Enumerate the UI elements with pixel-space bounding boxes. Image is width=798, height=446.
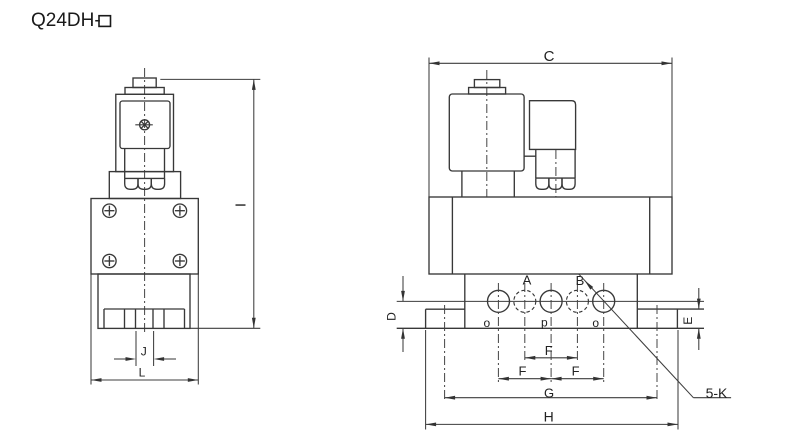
svg-text:F: F — [519, 363, 527, 378]
svg-text:E: E — [681, 317, 695, 325]
svg-text:H: H — [544, 409, 554, 425]
svg-text:A: A — [523, 273, 532, 288]
svg-text:p: p — [541, 316, 548, 330]
svg-text:J: J — [141, 345, 147, 359]
svg-text:o: o — [592, 316, 599, 330]
svg-text:G: G — [544, 385, 554, 400]
svg-text:F: F — [545, 343, 553, 358]
svg-text:C: C — [544, 48, 555, 65]
svg-text:F: F — [572, 363, 580, 378]
svg-text:I: I — [233, 203, 250, 207]
svg-text:L: L — [139, 366, 146, 380]
svg-text:5-K: 5-K — [706, 385, 728, 401]
svg-text:o: o — [483, 316, 490, 330]
svg-text:Q24DH-: Q24DH- — [31, 10, 101, 31]
svg-text:D: D — [385, 312, 399, 321]
